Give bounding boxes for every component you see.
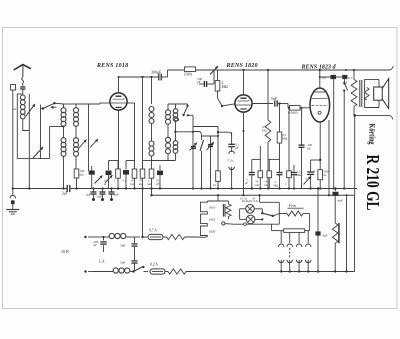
svg-text:1620: 1620 xyxy=(209,229,216,233)
svg-text:1610: 1610 xyxy=(209,206,216,210)
svg-text:4μF: 4μF xyxy=(338,199,344,203)
wire tube1 grid left xyxy=(100,103,110,104)
wire lamp bracket xyxy=(229,209,247,220)
svg-text:1622: 1622 xyxy=(209,218,216,222)
wire lamp loop xyxy=(246,195,279,224)
capacitor C 1,5nF drop xyxy=(299,108,313,189)
svg-text:RENS 1820: RENS 1820 xyxy=(226,63,258,69)
svg-text:5nF: 5nF xyxy=(120,261,125,265)
switch S6 mains xyxy=(132,266,148,273)
wire tube2 cathode down xyxy=(243,112,245,195)
tap labels xyxy=(209,206,216,234)
brand text Koerting xyxy=(368,124,378,145)
input coil L2a xyxy=(50,104,66,159)
svg-text:kΩ: kΩ xyxy=(80,173,85,177)
svg-text:2nF: 2nF xyxy=(322,76,328,80)
label RENS 1820 xyxy=(226,63,258,69)
trimmer arrow Cd xyxy=(105,175,113,183)
svg-text:Fein: Fein xyxy=(288,204,296,208)
voltage divider R16 xyxy=(272,224,310,232)
wire cathode jog xyxy=(311,160,321,172)
wire divider drop xyxy=(317,187,319,272)
input coil L2b xyxy=(61,138,66,189)
wire top rail hook xyxy=(390,66,393,70)
wire bottom hook xyxy=(390,115,393,119)
resistor R9 xyxy=(277,132,288,189)
wire tie3 xyxy=(252,146,260,159)
resistor R3 xyxy=(116,161,121,189)
resistor R2 500 top xyxy=(184,67,196,77)
wire row tie bar xyxy=(109,160,176,162)
switch arrow small xyxy=(51,106,57,109)
plug contacts upper xyxy=(278,244,311,247)
wire band switch drop xyxy=(41,105,50,159)
input coil L3b xyxy=(74,138,79,168)
svg-text:(500): (500) xyxy=(184,73,193,77)
svg-text:MΩ: MΩ xyxy=(274,184,279,187)
IF coil L6 xyxy=(173,104,178,141)
mains choke lower xyxy=(93,268,133,273)
plug contacts lower xyxy=(278,260,311,263)
wire switch feed xyxy=(41,108,44,110)
mains terminal upper xyxy=(80,235,93,240)
capacitor C blk c xyxy=(157,165,163,189)
band switch S1 xyxy=(42,102,64,110)
resistor R10 1M xyxy=(288,106,309,115)
capacitor C row c2 xyxy=(245,159,255,189)
wire drop x329 xyxy=(328,120,330,195)
speaker cone xyxy=(382,79,389,109)
phono jack TA lower xyxy=(229,167,235,189)
svg-text:·: · xyxy=(80,235,81,240)
svg-text:K4: K4 xyxy=(13,107,17,111)
IF coil L4 lower xyxy=(149,141,154,161)
component C 0,5 blk xyxy=(336,75,353,84)
terminal box E xyxy=(11,85,16,91)
capacitor C 4uF bus xyxy=(333,187,344,202)
wire coupling drop xyxy=(278,102,280,132)
capacitor C blk b xyxy=(123,161,129,189)
dashed tap select xyxy=(289,248,291,258)
arrow antenna coil variable xyxy=(26,104,35,116)
divider taps xyxy=(281,231,308,244)
tuning capacitor C1 arrow xyxy=(33,147,43,158)
speaker coil zigzag xyxy=(365,88,369,101)
svg-text:5nF: 5nF xyxy=(120,244,125,248)
shunt capacitor 1uF b xyxy=(109,189,120,202)
wire grid column xyxy=(88,104,90,171)
plug stems lower xyxy=(281,260,308,272)
wire tube1 grid right xyxy=(127,103,134,161)
capacitor C row d xyxy=(274,173,283,188)
wire bottom bus right xyxy=(276,195,355,272)
svg-text:18 W: 18 W xyxy=(61,250,70,254)
row labels tiny xyxy=(104,179,160,186)
fuse F1 0,7A xyxy=(143,229,164,240)
svg-text:pF: pF xyxy=(94,243,98,247)
rheostat R17 xyxy=(332,195,339,271)
capacitor C 300uF series xyxy=(151,70,162,81)
resistor R6 xyxy=(149,161,154,189)
wire heater feed drop xyxy=(141,189,143,239)
resistor R19 mains xyxy=(165,269,276,274)
wire grid3 link xyxy=(287,104,289,108)
wire coil top link xyxy=(64,103,101,105)
model text R 210 GL xyxy=(363,155,383,211)
resistor R5 xyxy=(140,161,145,189)
svg-text:MΩ: MΩ xyxy=(297,173,303,177)
capacitor C 5nF xyxy=(271,97,288,107)
tube U1 RENS1018 xyxy=(110,93,127,110)
wire lamps right xyxy=(254,209,263,221)
tube U3 RENS1823d xyxy=(310,88,330,122)
svg-text:μF: μF xyxy=(235,146,239,150)
IF coil L5 lower xyxy=(166,137,171,160)
label lamps xyxy=(242,199,259,204)
wire tube2 grid xyxy=(218,98,236,107)
svg-text:RENS 1018: RENS 1018 xyxy=(96,63,128,69)
transformer T1 primary xyxy=(351,70,357,115)
speaker frame xyxy=(365,80,379,108)
wire speaker bottom xyxy=(353,114,389,117)
capacitor C 100pF xyxy=(197,70,214,87)
capacitor antenna series xyxy=(20,87,25,94)
wire tie4 xyxy=(268,158,280,160)
wire IF sec top link xyxy=(168,103,188,105)
wire screen drop x142.5 xyxy=(142,77,144,169)
resistor R15 500 xyxy=(318,160,329,189)
resistor R13 xyxy=(265,159,272,188)
capacitor C blk a xyxy=(106,161,112,189)
connector diamond xyxy=(234,223,248,226)
label RENS 1823 d xyxy=(301,65,337,71)
wire drop 2nF x333.7 xyxy=(333,79,335,188)
phono jack TA upper xyxy=(229,151,235,154)
transformer T1 core xyxy=(360,80,362,107)
antenna coil frame xyxy=(17,94,29,131)
fuse Fein xyxy=(279,204,309,231)
ground symbol xyxy=(6,189,19,215)
svg-text:μF: μF xyxy=(308,147,312,151)
svg-text:L.A.: L.A. xyxy=(98,260,105,264)
svg-text:kΩ: kΩ xyxy=(256,184,259,187)
trimmer capacitor padder2 xyxy=(207,136,215,190)
switch S3 xyxy=(343,79,348,188)
input coil L3a xyxy=(74,104,79,138)
label 18W xyxy=(61,250,70,254)
wire osc link xyxy=(187,114,218,131)
bus2 labels smudge xyxy=(240,197,256,201)
svg-text:1μF: 1μF xyxy=(114,193,120,197)
antenna lead-in switch xyxy=(22,77,24,86)
mains terminal lower xyxy=(84,270,93,272)
IF coil L6 lower xyxy=(173,141,178,161)
resistor R12 xyxy=(256,159,263,188)
antenna xyxy=(14,65,31,78)
svg-text:2μF: 2μF xyxy=(62,192,68,196)
label RENS 1018 xyxy=(96,63,128,69)
wire screen drop x268 xyxy=(267,70,269,120)
capacitor C 0,1uF a xyxy=(228,132,239,152)
shunt capacitor 1uF a xyxy=(86,189,97,202)
mains choke upper xyxy=(93,233,140,238)
dial lamp LP2 xyxy=(246,215,255,224)
capacitor C 500pF xyxy=(94,237,107,252)
svg-text:kΩ: kΩ xyxy=(265,184,268,187)
svg-text:μF: μF xyxy=(156,182,160,186)
wire tube2 plate right xyxy=(252,103,273,105)
svg-text:T.A.: T.A. xyxy=(228,158,234,162)
wire left inner drop xyxy=(28,131,30,189)
wire tube3 cathode xyxy=(319,122,321,161)
svg-text:MΩ: MΩ xyxy=(222,85,228,89)
wire tube1 anode up xyxy=(118,77,120,93)
switch S5 mains xyxy=(261,212,279,217)
svg-text:5nF: 5nF xyxy=(271,97,277,101)
svg-text:4μF: 4μF xyxy=(323,234,328,238)
IF coil L5 secondary xyxy=(166,104,171,137)
bus second line xyxy=(150,189,354,197)
wire mid link y131 xyxy=(174,131,194,133)
capacitor C 2uF series bus xyxy=(62,185,70,196)
IF coil L4 primary xyxy=(149,107,154,142)
wire right drop x354 xyxy=(354,115,356,195)
label LA xyxy=(98,260,105,264)
trimmer arrow Cb xyxy=(90,139,98,148)
switch lever mid xyxy=(193,132,219,190)
wire antenna left drop xyxy=(12,90,14,189)
wire top rail left y77 xyxy=(118,76,168,78)
svg-text:R 210 GL: R 210 GL xyxy=(363,155,383,211)
svg-text:5μF: 5μF xyxy=(97,195,103,199)
antenna coil L1 xyxy=(20,95,25,131)
wire cap link column xyxy=(120,237,138,272)
label TA xyxy=(228,158,234,162)
wire tube1 cathode down xyxy=(118,110,120,169)
terminal circle xyxy=(222,222,234,225)
capacitor blk AVC a xyxy=(89,166,95,189)
wire drop x346 xyxy=(346,195,348,271)
wire rail riser xyxy=(167,70,169,77)
trimmer arrow Cc xyxy=(95,176,103,184)
svg-text:Körting: Körting xyxy=(368,124,378,145)
capacitor C 4uF b xyxy=(315,231,327,237)
resistor R18 mains xyxy=(163,234,204,239)
coil tap loop xyxy=(175,118,179,121)
svg-text:1μF: 1μF xyxy=(86,193,92,197)
heater winding zigzag xyxy=(226,204,231,219)
capacitor C4uF cathode xyxy=(307,169,315,190)
fuse F2 0,2A xyxy=(150,263,165,275)
trimmer arrow top xyxy=(210,66,218,75)
speaker driver xyxy=(374,87,383,100)
capacitor C row e xyxy=(291,165,302,189)
svg-text:pF: pF xyxy=(197,80,201,84)
capacitor C 2nF xyxy=(319,75,336,80)
label K4 xyxy=(13,107,17,111)
dial lamp LP1 xyxy=(246,205,255,214)
wire IF1 top xyxy=(151,77,153,104)
tube U2 RENS1820 xyxy=(235,95,252,112)
wire tube3 anode up xyxy=(319,69,321,88)
wire winding top xyxy=(217,194,219,201)
svg-text:300μF: 300μF xyxy=(151,70,162,75)
trimmer capacitor padder1 xyxy=(190,132,198,190)
svg-text:MΩ: MΩ xyxy=(282,137,288,141)
wire top rail y70 xyxy=(168,69,391,71)
wire cathode join xyxy=(217,131,232,135)
bus chassis line xyxy=(12,187,357,189)
resistor R7 2M xyxy=(215,70,228,98)
resistor R4 xyxy=(132,161,137,189)
svg-text:μF: μF xyxy=(245,182,248,185)
resistor R1 100k xyxy=(74,168,84,189)
mains tap winding xyxy=(201,201,229,237)
resistor R14 xyxy=(285,107,291,189)
switch S2 osc xyxy=(182,104,188,116)
resistor R8 zigzag xyxy=(262,120,271,189)
switch S4 arrow xyxy=(304,176,312,184)
svg-text:MΩ: MΩ xyxy=(262,128,268,132)
heater transformer core xyxy=(223,201,228,217)
wire tube2 anode up xyxy=(243,70,245,95)
trimmer arrow Ca xyxy=(79,140,87,149)
resistor R11 xyxy=(213,127,220,189)
svg-text:0,1: 0,1 xyxy=(213,184,217,187)
wire left band link xyxy=(17,131,47,159)
shunt capacitor 5uF xyxy=(97,189,106,202)
